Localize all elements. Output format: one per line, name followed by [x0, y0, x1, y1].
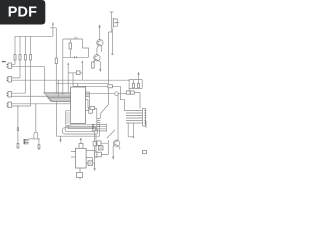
svg-text:PDF: PDF: [8, 4, 37, 20]
